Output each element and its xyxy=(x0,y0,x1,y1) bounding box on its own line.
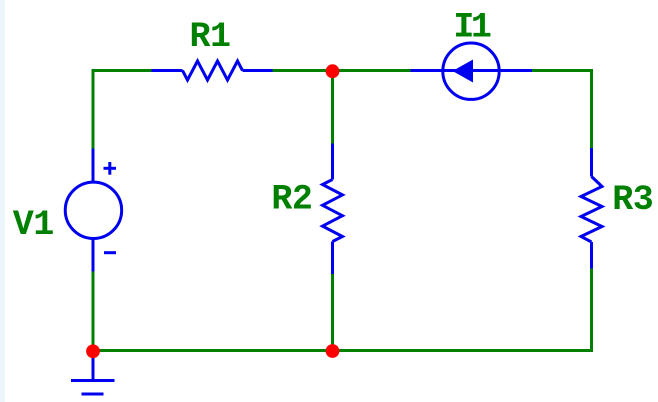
voltage source V1 xyxy=(65,149,121,272)
svg-text:R3: R3 xyxy=(612,180,654,220)
wire: node A down to R2 top lead xyxy=(331,71,334,144)
ground xyxy=(71,352,115,394)
wire: node A to I1 left lead xyxy=(333,69,411,72)
wire: R2 bottom lead down to node B (bottom middle junction) xyxy=(331,274,334,351)
wire: node B to bottom-right corner and up to R3 bottom lead xyxy=(333,269,592,351)
wire: I1 right lead to top-right corner and down to R3 top lead xyxy=(532,71,592,149)
window edge strip xyxy=(0,0,5,402)
resistor R2 xyxy=(323,144,343,275)
node C: ground junction xyxy=(86,344,100,358)
node A: top middle junction xyxy=(326,64,340,78)
svg-text:I1: I1 xyxy=(453,8,492,48)
wire: top horizontal from top-left corner to R1 left lead xyxy=(92,69,152,72)
svg-text:V1: V1 xyxy=(13,205,55,245)
wire: V1 negative lead down to node C (ground node) xyxy=(92,272,95,351)
svg-text:R2: R2 xyxy=(271,180,313,220)
resistor R3 xyxy=(581,148,602,269)
node B: bottom middle junction xyxy=(326,344,340,358)
V1 plus sign xyxy=(104,167,117,170)
svg-text:R1: R1 xyxy=(190,17,232,57)
V1 minus sign xyxy=(104,251,116,254)
wire: bottom horizontal from node C to node B xyxy=(93,349,333,352)
resistor R1 xyxy=(152,61,273,80)
wire: R1 right lead to node A (top middle junction) xyxy=(273,69,334,72)
current source I1 xyxy=(411,43,533,99)
wire: left vertical from top-left corner down to V1 positive lead xyxy=(92,69,95,149)
